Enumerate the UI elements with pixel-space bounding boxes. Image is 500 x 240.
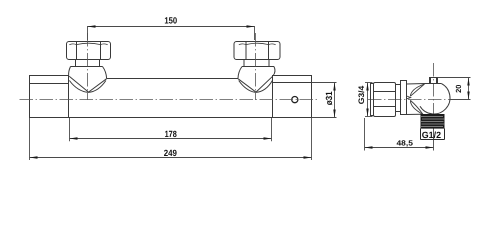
svg-text:ø31: ø31 — [324, 91, 334, 105]
svg-text:G3/4: G3/4 — [357, 85, 366, 104]
svg-text:150: 150 — [164, 15, 177, 25]
svg-text:249: 249 — [164, 148, 177, 158]
svg-text:20: 20 — [454, 85, 463, 93]
svg-text:178: 178 — [165, 129, 177, 139]
svg-text:G1/2: G1/2 — [422, 130, 441, 140]
svg-text:48,5: 48,5 — [397, 138, 413, 147]
